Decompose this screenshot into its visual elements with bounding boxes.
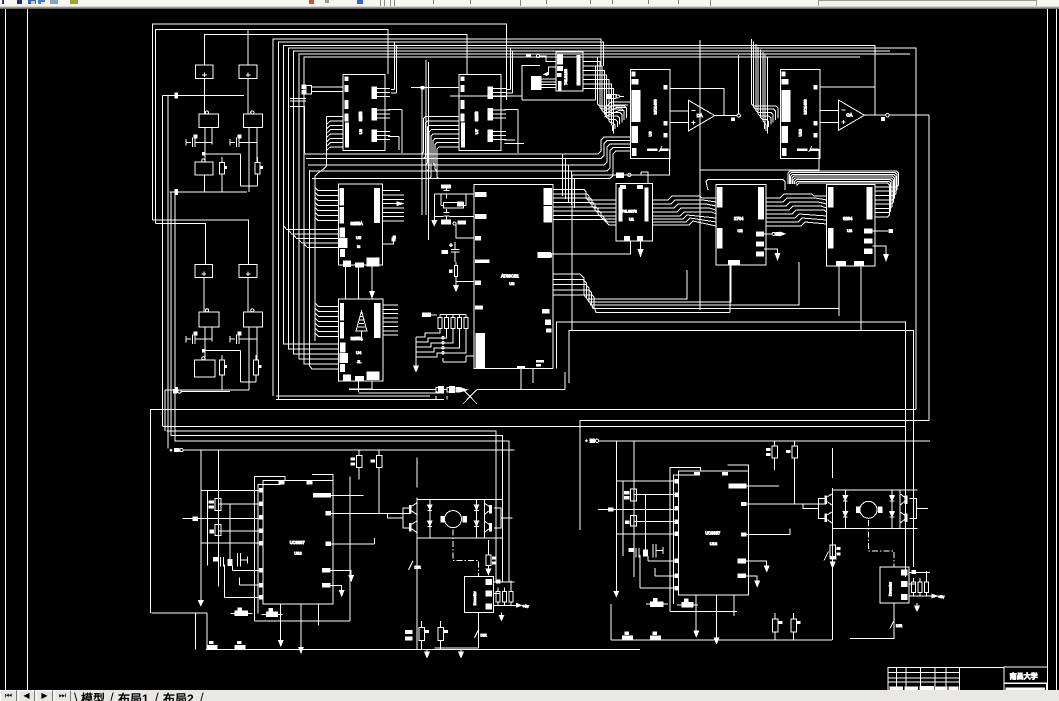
wire crystal to U0 xyxy=(441,194,474,217)
wire bus h2 xyxy=(569,331,861,383)
wire K2 top xyxy=(247,30,249,65)
wire osc2 feed 2 xyxy=(156,224,206,265)
wire R1 leads xyxy=(221,157,223,192)
title block name box xyxy=(1004,667,1047,683)
title block lower box xyxy=(1004,684,1046,691)
latch U1 74LS373 xyxy=(616,183,652,241)
ram U3 6264 xyxy=(827,184,876,266)
wire U2 U3 top arc xyxy=(706,180,785,190)
wire osc1 xtal link xyxy=(241,185,258,187)
wire K4 bottom xyxy=(247,277,249,312)
wire U4 bottom pins xyxy=(349,381,372,392)
wire U2 oe xyxy=(764,249,780,260)
svg-text:U7: U7 xyxy=(474,128,479,134)
wire U7 input tap xyxy=(411,60,459,240)
svg-text:≌: ≌ xyxy=(357,244,360,249)
wire osc2 feed 1 xyxy=(152,220,248,264)
svg-text:南昌大学: 南昌大学 xyxy=(1010,671,1038,680)
wire U5 right stubs xyxy=(383,191,405,245)
bus U2 to U3 xyxy=(766,194,827,226)
oscillator Y2 xyxy=(243,111,262,128)
svg-text:U0: U0 xyxy=(509,281,515,286)
bus U7 left fan xyxy=(422,117,459,179)
crystal Y5 xyxy=(441,201,466,208)
inverter A2 xyxy=(195,357,215,377)
op-amp A4 xyxy=(838,100,864,130)
node U1 clk xyxy=(616,172,648,184)
svg-text:✦: ✦ xyxy=(170,448,174,452)
wire right border outer xyxy=(1056,9,1058,690)
wire A4 feedback xyxy=(820,87,875,115)
svg-text:U4: U4 xyxy=(356,350,362,355)
driver U13 UC3637 section xyxy=(585,439,944,644)
wire K3 bottom xyxy=(203,277,205,312)
wire U3 oe xyxy=(872,246,888,261)
op-amp A3 xyxy=(689,100,715,130)
wire long bus 1 xyxy=(150,410,916,614)
wire long bus 4 xyxy=(167,431,496,582)
svg-text:U9: U9 xyxy=(648,131,653,137)
resistor right sense xyxy=(830,545,840,568)
capacitor C3 xyxy=(186,332,212,345)
bus trunk taps U4 xyxy=(315,303,339,336)
wire Y3 leads xyxy=(205,327,212,360)
svg-text:8253: 8253 xyxy=(474,111,479,121)
connector J3 xyxy=(607,94,625,99)
wire U5 drop arrow xyxy=(370,290,375,299)
wire U2 cs xyxy=(764,232,785,236)
wire Y1 leads xyxy=(205,127,212,162)
wire U10 to A4 xyxy=(820,110,838,122)
bus CPU lower right xyxy=(553,262,839,313)
wire U0 bottom xyxy=(517,366,533,390)
wire left feeder 5 xyxy=(174,192,176,441)
resistor R3 xyxy=(220,360,228,375)
connector J2 xyxy=(531,76,556,90)
svg-text:MC1408: MC1408 xyxy=(802,99,807,115)
title block grid xyxy=(888,668,959,691)
wire R2 leads xyxy=(257,157,259,186)
wire top bus 2 xyxy=(156,30,389,224)
svg-text:6264: 6264 xyxy=(843,216,853,221)
relay K1 xyxy=(196,65,214,79)
timer U6 8253 xyxy=(343,74,390,150)
wire top bus 5 xyxy=(279,42,604,399)
wire crystal left xyxy=(432,194,444,226)
wire U8 box xyxy=(522,66,540,100)
oscillator Y4 xyxy=(243,309,262,327)
svg-text:DIR: DIR xyxy=(481,633,488,637)
DAC U9 MC1408 xyxy=(631,70,671,159)
svg-text:+5v: +5v xyxy=(523,604,529,608)
resistor network RN1 xyxy=(422,313,468,329)
wire A3 feedback xyxy=(670,88,724,115)
capacitor C2 xyxy=(230,135,257,148)
wire long bus 6 xyxy=(174,441,509,582)
wire osc2 xtal link xyxy=(241,381,256,383)
wire U3 cs xyxy=(872,229,893,233)
wire R4 leads xyxy=(255,355,257,382)
svg-text:MC1408: MC1408 xyxy=(653,99,658,115)
wire A4 output xyxy=(864,114,929,421)
bus CPU to U1 xyxy=(560,190,616,225)
oscillator Y1 xyxy=(199,111,219,128)
wire U0 right data stubs xyxy=(553,190,560,220)
bus branch U5 lower xyxy=(283,226,338,248)
wire left feeder 1 xyxy=(161,192,164,425)
resistor pair right bottom xyxy=(772,613,800,640)
wire RN1 fan xyxy=(414,329,474,372)
wire top bus 10 xyxy=(304,57,860,364)
svg-text:UC3637: UC3637 xyxy=(705,531,721,536)
wire osc1 cross xyxy=(202,152,241,186)
relay K2 xyxy=(239,65,257,79)
wire bus h4 xyxy=(477,372,565,390)
wire mid rail drops xyxy=(563,154,575,208)
node left rail tap xyxy=(173,389,230,393)
DAC U10 MC1408 xyxy=(780,70,820,159)
svg-text:U1: U1 xyxy=(629,218,634,222)
wire U6 right stubs xyxy=(388,43,402,240)
inverter A1 xyxy=(195,159,213,175)
wire U3 bottom pins xyxy=(839,266,861,331)
wire bus h1 xyxy=(556,322,905,577)
connector J4 xyxy=(430,386,467,399)
resistor R1 xyxy=(220,163,228,174)
svg-text:U2: U2 xyxy=(738,228,744,233)
ppi U4 8255 xyxy=(339,299,383,381)
wire top bus 9 xyxy=(299,54,910,359)
wire bus h3 xyxy=(569,331,914,567)
svg-text:U13: U13 xyxy=(710,541,718,546)
svg-text:U6: U6 xyxy=(358,128,363,134)
node reset xyxy=(453,221,474,238)
wire osc1 bottom rail xyxy=(170,175,248,195)
relay K3 xyxy=(195,265,212,278)
svg-text:Decoder: Decoder xyxy=(889,581,893,596)
wire U8 box bottom xyxy=(450,66,596,100)
capacitor C7 xyxy=(441,242,459,262)
wire left feeder 2 xyxy=(164,390,166,431)
node U8 enable xyxy=(526,54,556,76)
wire U5 bottom pins xyxy=(346,265,372,299)
svg-text:DIR: DIR xyxy=(896,624,903,628)
svg-text:OA: OA xyxy=(846,113,852,118)
bus U9 left fan lower xyxy=(305,137,631,179)
ppi U5 8255 xyxy=(339,184,383,268)
wire reset bottom xyxy=(454,282,474,291)
svg-text:74LS138: 74LS138 xyxy=(563,68,568,85)
bus staircase U4 lower xyxy=(310,170,339,369)
driver U12 UC3637 section xyxy=(170,448,641,653)
svg-text:JL: JL xyxy=(357,359,362,364)
wire osc1 mid rail xyxy=(162,93,244,193)
wire top bus 7 xyxy=(289,48,917,409)
wire mid cross lines xyxy=(276,390,444,400)
connector J1 xyxy=(301,85,343,95)
bus U1 to U2 xyxy=(653,196,717,226)
wire long bus 3 xyxy=(163,425,905,426)
decoder U8 74LS138 xyxy=(556,52,583,91)
wire K2 bottom xyxy=(247,78,249,114)
svg-text:8255A: 8255A xyxy=(351,221,363,226)
svg-text:U10: U10 xyxy=(797,128,802,136)
capacitor C6 xyxy=(441,209,451,224)
svg-text:U5: U5 xyxy=(356,235,362,240)
timer U7 8253 xyxy=(459,74,506,150)
resistor left sense xyxy=(486,540,496,575)
bus trunk taps U5 xyxy=(315,187,339,220)
toolbar xyxy=(0,0,1059,9)
wire A3 output xyxy=(715,55,741,121)
wire U9 bottom pin xyxy=(572,149,669,331)
svg-text:DIR: DIR xyxy=(415,565,422,569)
svg-text:UC3637: UC3637 xyxy=(290,540,306,545)
bus U3 right fan xyxy=(788,171,899,217)
wire top bus 8 xyxy=(294,51,890,354)
wire left feeder 3 xyxy=(167,96,169,449)
wire Y2 leads xyxy=(249,127,257,192)
wire R3 leads xyxy=(221,355,223,390)
wire left section box xyxy=(152,477,350,650)
svg-text:U12: U12 xyxy=(294,550,302,555)
resistor pair left bottom xyxy=(405,621,448,649)
wire osc2 bottom rail xyxy=(165,387,249,393)
wire right border inner xyxy=(1047,9,1049,690)
bus ramp into U9 xyxy=(605,102,631,117)
svg-text:U3: U3 xyxy=(847,228,853,233)
wire osc2 cross xyxy=(202,349,241,382)
wire Y4 leads xyxy=(249,327,257,390)
wire top bus 4 xyxy=(273,39,601,396)
wire U2 bottom xyxy=(729,265,731,313)
wire left border outer xyxy=(5,9,7,690)
bus U10 left fan upper xyxy=(751,39,778,133)
oscillator Y3 xyxy=(199,309,219,327)
mcu U0 AT89C51 xyxy=(474,184,553,368)
wire long bus 2 xyxy=(580,420,929,530)
symbol U4 arrow xyxy=(356,311,367,341)
svg-text:+5v: +5v xyxy=(938,595,944,599)
wire U6 routing box xyxy=(290,107,305,154)
wire top bus 3 xyxy=(205,34,467,74)
wire right box edge xyxy=(579,420,581,530)
svg-text:2764: 2764 xyxy=(734,216,744,221)
model/layout tab bar xyxy=(0,690,1059,701)
svg-text:8253: 8253 xyxy=(358,111,363,121)
resistor R2 xyxy=(255,163,263,174)
symbol X mark xyxy=(463,390,477,404)
resistor R5 xyxy=(449,262,457,286)
resistor R4 xyxy=(254,360,262,375)
title block middle xyxy=(959,668,1004,691)
wire long bus 5 xyxy=(170,436,502,583)
capacitor C1 xyxy=(186,135,212,148)
wire left feeder 4 xyxy=(170,192,172,436)
capacitor C4 xyxy=(230,332,257,345)
wire top bus 6 xyxy=(283,45,875,344)
svg-text:+: + xyxy=(450,243,453,249)
svg-text:AT89C51: AT89C51 xyxy=(501,273,519,278)
wire U7 right stubs xyxy=(504,48,524,153)
svg-text:74LS373: 74LS373 xyxy=(622,210,637,214)
wire U6 routing box 2 xyxy=(290,99,306,101)
wire U9 to A3 xyxy=(670,111,689,123)
wire U4 right stubs xyxy=(383,305,398,335)
bus U6 left trunk xyxy=(315,117,343,341)
relay K4 xyxy=(239,265,257,278)
wire top bus 1 xyxy=(152,24,506,220)
svg-text:✦: ✦ xyxy=(585,439,589,443)
wire bottom arrows xyxy=(425,649,464,657)
wire U10 bottom pin xyxy=(700,40,819,310)
wire U8 outputs to U9 xyxy=(583,57,627,133)
svg-text:Decoder: Decoder xyxy=(473,591,477,606)
wire left border inner xyxy=(27,9,29,690)
eprom U2 2764 xyxy=(716,185,766,266)
wire U1 bottom xyxy=(537,241,642,258)
wire K1 bottom xyxy=(204,78,206,114)
capacitor C5 xyxy=(441,184,451,198)
